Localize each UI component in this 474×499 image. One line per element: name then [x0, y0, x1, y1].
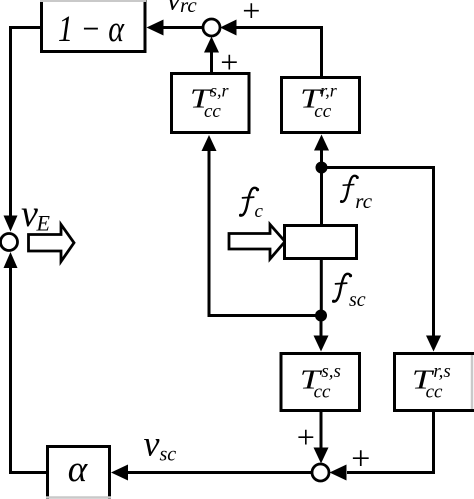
summing junction S1 (top): [203, 19, 220, 36]
svg-text:v: v: [21, 193, 38, 235]
hollow input arrow f_c: [229, 225, 285, 260]
block B2 (T_cc^{s,r}): [172, 74, 250, 133]
block B6 (T_cc^{r,s}): [395, 354, 474, 411]
label v_sc: [144, 424, 177, 466]
label f_rc: [340, 176, 373, 213]
svg-text:rc: rc: [180, 0, 197, 17]
svg-text:1 − α: 1 − α: [58, 9, 125, 50]
svg-text:cc: cc: [314, 101, 331, 122]
svg-text:sc: sc: [160, 444, 177, 466]
svg-text:E: E: [36, 211, 51, 236]
node D2 (f_sc junction): [315, 310, 327, 322]
wire: bottom sum to B7 alpha with arrowhead: [111, 465, 312, 481]
svg-text:rc: rc: [355, 189, 372, 213]
label v_E: [21, 193, 51, 236]
svg-text:+: +: [240, 0, 262, 29]
svg-text:cc: cc: [426, 382, 443, 403]
svg-text:c: c: [255, 201, 264, 222]
svg-text:s,s: s,s: [321, 361, 341, 382]
svg-text:α: α: [68, 449, 89, 490]
svg-text:+: +: [295, 419, 317, 455]
svg-text:cc: cc: [204, 101, 221, 122]
svg-text:+: +: [349, 441, 372, 478]
wire: B7 alpha output left and up into v_E sum: [4, 252, 47, 473]
hollow output arrow v_E: [29, 225, 75, 262]
wire: B2 top to top sum with arrowhead: [204, 37, 219, 74]
svg-text:v: v: [144, 424, 160, 464]
svg-text:v: v: [167, 0, 181, 17]
wire: B5 bottom down into bottom sum with arrowhead: [314, 411, 329, 464]
svg-text:cc: cc: [314, 382, 331, 403]
node D1 (f_rc junction): [316, 162, 328, 174]
wire: top sum to B1 with arrowhead: [147, 20, 204, 36]
wire: B3 top up and left into top sum with arrowhead: [220, 20, 322, 78]
block B4 (unlabeled): [285, 226, 357, 259]
wire: D1 right and down into B6 with arrowhead: [326, 168, 441, 352]
label f_c: [239, 188, 264, 222]
svg-text:s,r: s,r: [210, 81, 230, 101]
label v_rc: [167, 0, 197, 17]
block B1 (1 - alpha): [40, 0, 146, 52]
summing junction S2 (v_E, left): [1, 234, 18, 251]
svg-text:sc: sc: [349, 289, 366, 311]
summing junction S3 (bottom): [312, 464, 329, 481]
wire: B4 bottom to node D2: [320, 259, 323, 316]
block B7 (alpha): [46, 447, 111, 499]
wire: D1 down to B4 top: [320, 168, 323, 226]
block B3 (T_cc^{r,r}): [282, 78, 360, 133]
wire: node D1 up into B3 with arrowhead: [314, 135, 329, 169]
wire: D2 down into B5 with arrowhead: [314, 316, 329, 352]
block B5 (T_cc^{s,s}): [281, 354, 360, 411]
wire: D2 left and up into B2 with arrowhead: [202, 135, 322, 316]
wire: B6 bottom down and left into bottom sum with arrowhead: [330, 411, 434, 481]
label f_sc: [332, 274, 366, 311]
wire: B1 output left and down into v_E sum: [4, 28, 42, 232]
svg-text:r,s: r,s: [433, 361, 450, 382]
svg-text:r,r: r,r: [320, 81, 338, 101]
